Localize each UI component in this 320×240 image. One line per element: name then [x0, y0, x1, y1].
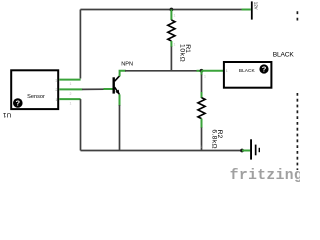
pin stub ground green	[242, 150, 250, 152]
resistor R1 zigzag	[168, 20, 175, 41]
svg-text:2: 2	[70, 92, 72, 96]
wire bottom rail	[81, 150, 243, 152]
svg-text:1: 1	[174, 14, 176, 18]
wire collector rail	[125, 70, 197, 72]
wire top rail	[80, 9, 241, 11]
pin stub U1 pin2 green	[59, 88, 82, 90]
svg-text:BLACK: BLACK	[239, 68, 256, 74]
pin stub Q1 base green	[104, 88, 113, 90]
svg-text:?: ?	[16, 99, 21, 108]
transistor Q1 base bar	[113, 77, 115, 93]
wire emitter drop to bottom rail	[119, 105, 121, 151]
svg-text:Sensor: Sensor	[27, 94, 45, 100]
transistor Q1 emitter diagonal	[115, 87, 120, 94]
pin stub R2 top green	[201, 71, 203, 75]
pin stub U1 pin1 green	[59, 98, 80, 100]
dashed edge line segment bottom	[296, 93, 298, 170]
svg-text:R1: R1	[184, 44, 191, 53]
junction node rail/R1	[170, 8, 174, 12]
pin stub Q1 collector green	[120, 71, 126, 76]
pin stub U2 pin1 green	[202, 70, 224, 72]
wire base: U1 pin2 to Q1 base	[82, 88, 105, 90]
ground bar 3	[259, 148, 260, 152]
svg-text:1: 1	[70, 82, 72, 86]
wire drop from U1 pin1 down	[80, 99, 82, 150]
wire R2 bottom link	[201, 128, 203, 151]
svg-text:1: 1	[200, 145, 202, 149]
svg-text:fritzing: fritzing	[230, 168, 300, 184]
transistor Q1 emitter arrowhead	[115, 90, 119, 95]
pin stub Q1 emitter green	[119, 94, 121, 106]
svg-text:?: ?	[262, 65, 267, 74]
wire R1 bottom to collector rail	[170, 47, 172, 71]
icon question badge U1	[13, 98, 23, 108]
svg-text:1: 1	[70, 102, 72, 106]
svg-text:1: 1	[174, 43, 176, 47]
wire end green at junction	[197, 70, 202, 72]
svg-text:R2: R2	[216, 130, 223, 139]
wire supply stub green	[242, 9, 251, 11]
power +12V bar	[251, 1, 253, 19]
ground bar 1	[250, 139, 252, 159]
svg-text:U1: U1	[3, 111, 12, 118]
IC U2 BLACK box	[224, 62, 272, 88]
pin stub R1 bottom green	[170, 41, 172, 47]
dashed edge line segment top	[296, 11, 298, 20]
pin stub U1 pin3 green	[59, 79, 80, 81]
svg-text:1: 1	[204, 75, 206, 79]
transistor Q1 collector diagonal	[115, 76, 120, 82]
junction node collector/R2/U2	[200, 69, 204, 73]
ground bar 2	[255, 145, 257, 156]
wire R2 top link	[201, 75, 203, 93]
icon question badge U2	[259, 64, 268, 73]
svg-text:NPN: NPN	[121, 62, 133, 68]
wire riser from U1 pin3 up to top rail	[79, 10, 81, 79]
pin stub R2 bottom green	[201, 119, 203, 128]
pin stub R1 top green	[170, 10, 172, 21]
pin stub R2 upper green	[201, 92, 203, 98]
IC U1 sensor box	[11, 70, 58, 109]
svg-text:12V: 12V	[253, 2, 258, 10]
junction node ground	[240, 149, 244, 153]
resistor R2 zigzag	[198, 98, 205, 119]
svg-text:BLACK: BLACK	[273, 51, 295, 58]
